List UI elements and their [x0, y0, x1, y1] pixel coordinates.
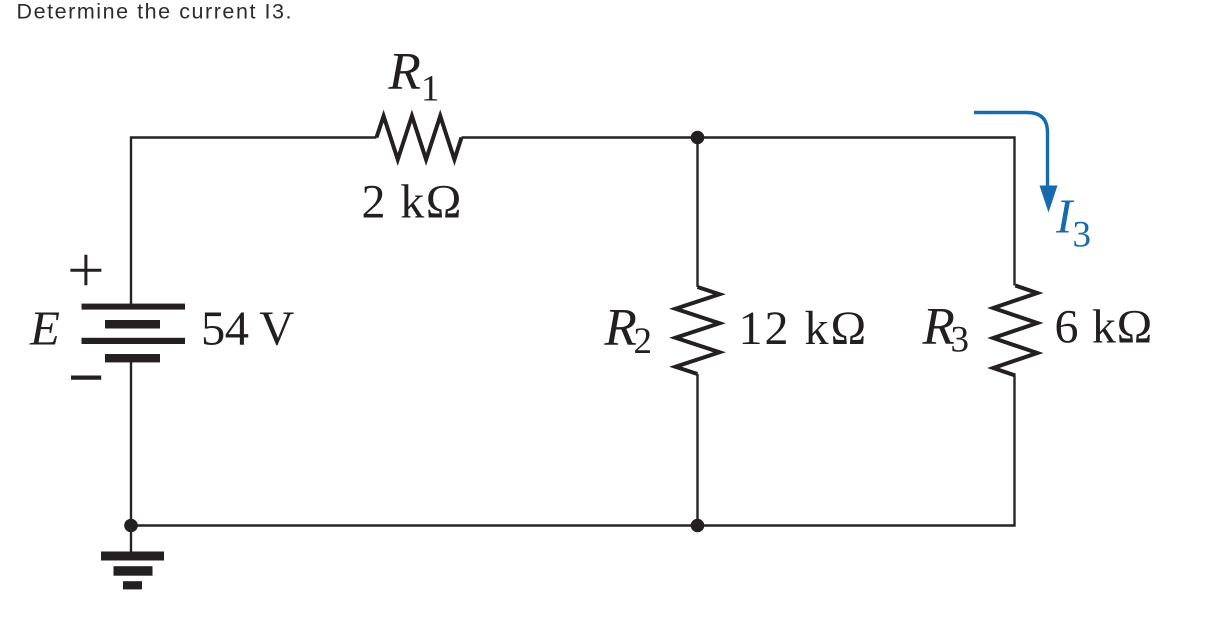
title text: [17, 0, 294, 24]
node: bottom junction dot: [691, 519, 705, 533]
svg-text:Determine the current I3.: Determine the current I3.: [17, 0, 294, 24]
resistor R3 label: [922, 298, 970, 361]
svg-text:2 kΩ: 2 kΩ: [362, 176, 463, 229]
resistor R2 (zigzag): [676, 287, 720, 374]
resistor R1 (zigzag): [377, 116, 462, 160]
resistor R3 (zigzag): [993, 286, 1037, 376]
battery value 54 V: [201, 303, 294, 356]
wire top-right: top wire right segment + right branch upper: [462, 138, 1015, 286]
svg-text:12 kΩ: 12 kΩ: [739, 302, 869, 355]
ground bar 1: [101, 552, 164, 561]
svg-text:E: E: [29, 301, 60, 356]
svg-text:1: 1: [421, 69, 440, 110]
battery E label: [29, 301, 60, 356]
resistor R1 label: [388, 43, 440, 110]
resistor R2 label: [604, 299, 653, 362]
battery E plate 4 (short bottom): [105, 354, 160, 362]
resistor R1 value 2 kOhm: [362, 176, 463, 229]
battery plus sign: [70, 255, 101, 285]
wire middle branch upper: [696, 138, 698, 288]
wire top-left: left branch upper + top wire left segment: [131, 138, 377, 305]
battery E plate 3 (long): [82, 338, 186, 344]
current I3 label (blue): [1055, 189, 1091, 256]
node: bottom-left junction dot: [124, 519, 138, 533]
resistor R2 value 12 kOhm: [739, 302, 869, 355]
svg-text:3: 3: [951, 320, 970, 361]
svg-text:R: R: [604, 299, 637, 357]
svg-text:R: R: [388, 43, 421, 101]
ground stem: [130, 526, 132, 553]
node: top junction dot: [691, 131, 705, 145]
svg-text:54 V: 54 V: [201, 303, 294, 356]
resistor R3 value 6 kOhm: [1055, 301, 1153, 354]
ground bar 3: [123, 581, 142, 589]
battery E plate 2 (short): [105, 320, 160, 329]
battery minus sign: [71, 376, 101, 380]
svg-text:2: 2: [634, 321, 653, 362]
svg-text:3: 3: [1073, 215, 1092, 256]
battery E plate 1 (long top): [82, 304, 186, 310]
svg-text:6 kΩ: 6 kΩ: [1055, 301, 1153, 354]
wire bottom loop: left branch lower + bottom wire + right branch lower: [131, 358, 1015, 526]
ground bar 2: [114, 566, 153, 576]
wire middle branch lower: [696, 374, 698, 526]
current I3 arrow (blue): [974, 113, 1058, 213]
